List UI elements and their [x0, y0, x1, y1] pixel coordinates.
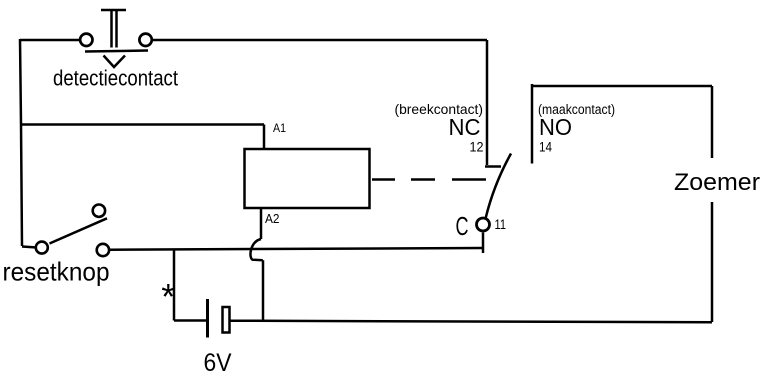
wire: top-left horizontal to detection contact: [20, 39, 79, 42]
wire: battery branch vertical (asterisk wire): [173, 250, 176, 321]
svg-text:12: 12: [470, 139, 484, 155]
relay coil K1 rectangle: [245, 149, 370, 208]
wire: A2 vertical continues to bottom rail: [262, 260, 265, 321]
contact K1 NC: fixed contact tick (pin 12): [485, 165, 501, 168]
svg-text:C: C: [456, 211, 469, 241]
wire: NO branch vertical (pin 14): [531, 84, 534, 164]
switch S2 resetknop: lever: [50, 218, 108, 243]
switch S2 resetknop: left pivot circle: [36, 242, 48, 254]
svg-text:detectiecontact: detectiecontact: [53, 66, 179, 91]
pushbutton S1 detectiecontact: arrow V: [104, 56, 126, 68]
pushbutton S1 detectiecontact: contact bar: [85, 51, 148, 52]
wire: A2 vertical from coil bottom: [260, 208, 263, 239]
svg-text:*: *: [161, 276, 175, 317]
pushbutton S1 detectiecontact: left terminal circle: [80, 34, 92, 46]
svg-text:A2: A2: [265, 211, 280, 226]
wire: bottom rail from battery to right side: [230, 321, 712, 323]
switch S2 resetknop: upper open-contact circle: [93, 205, 105, 217]
svg-text:Zoemer: Zoemer: [674, 169, 760, 196]
dashed mechanical link from coil to contact: [372, 178, 486, 181]
svg-text:NC: NC: [449, 114, 481, 140]
wire: horizontal from reset button to contact C: [110, 248, 483, 250]
wire: A1 vertical into coil: [263, 125, 266, 151]
wire: C terminal vertical (pin 11): [482, 233, 485, 254]
switch S2 resetknop: right terminal circle: [97, 244, 109, 256]
svg-text:6V: 6V: [204, 349, 232, 377]
svg-text:NO: NO: [539, 114, 572, 140]
wire: right vertical lower segment from buzzer to bottom rail: [711, 202, 714, 322]
wire: top rail from NO to buzzer: [532, 85, 712, 88]
wire: battery left lead: [174, 319, 207, 322]
wire: NC branch vertical drop: [486, 40, 489, 165]
svg-text:14: 14: [539, 139, 552, 155]
battery B1: long positive plate: [206, 299, 209, 338]
pushbutton S1 detectiecontact: actuator stem and cap: [101, 10, 126, 48]
wire: left vertical bus: [20, 39, 22, 246]
wire: right vertical upper segment to buzzer: [711, 86, 714, 158]
wire: left stub to reset button: [22, 245, 35, 248]
svg-text:A1: A1: [273, 121, 286, 135]
wire: second horizontal to relay coil A1: [20, 123, 264, 126]
wire hop: A2 wire jumps over reset wire: [250, 239, 262, 260]
svg-text:11: 11: [495, 216, 507, 232]
battery B1: short negative plate: [223, 307, 230, 333]
contact K1: common terminal circle (pin 11): [477, 218, 490, 231]
pushbutton S1 detectiecontact: right terminal circle: [139, 34, 151, 46]
contact K1: common lever from pin 12 to pin 11: [486, 154, 511, 218]
wire: top horizontal from detection contact to NC branch: [153, 39, 487, 42]
svg-text:resetknop: resetknop: [3, 257, 110, 287]
